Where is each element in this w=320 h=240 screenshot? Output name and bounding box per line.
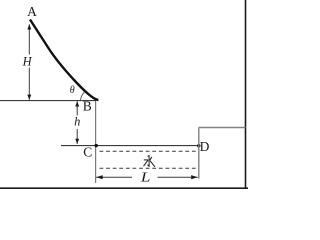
vertical line below B/C — [95, 101, 97, 183]
water dashed line upper — [100, 150, 197, 152]
right border — [245, 0, 247, 188]
H bottom arrowhead — [27, 95, 31, 100]
svg-text:C: C — [83, 145, 92, 160]
bottom border — [0, 187, 248, 189]
water dashed line lower — [100, 167, 197, 169]
dimension L line left segment — [96, 176, 132, 178]
L left arrowhead — [96, 175, 103, 179]
svg-text:D: D — [200, 139, 210, 154]
dimension H line — [28, 24, 30, 54]
water surface line C to D — [61, 145, 199, 147]
svg-text:h: h — [74, 115, 80, 129]
dimension h line — [76, 101, 78, 115]
svg-text:A: A — [27, 4, 37, 19]
h top arrowhead — [75, 101, 79, 106]
svg-text:H: H — [22, 55, 33, 69]
step top horizontal line — [199, 127, 246, 129]
H top arrowhead — [27, 24, 31, 29]
node C dot — [95, 144, 98, 147]
ground line at B level — [0, 100, 96, 102]
svg-text:θ: θ — [70, 85, 75, 96]
step vertical line below D — [198, 127, 200, 178]
node D dot — [197, 144, 200, 147]
angle arc theta — [80, 92, 84, 101]
slope curve A to B — [30, 20, 98, 100]
water character strokes — [144, 156, 155, 167]
dimension L line right segment — [158, 176, 198, 178]
svg-text:L: L — [140, 170, 151, 185]
L right arrowhead — [191, 175, 198, 179]
h bottom arrowhead — [75, 139, 79, 144]
svg-text:B: B — [83, 99, 92, 114]
